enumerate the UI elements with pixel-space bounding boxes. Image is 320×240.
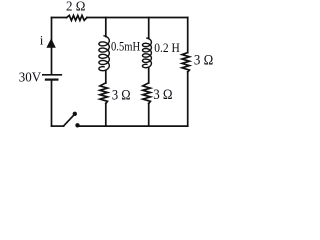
wire left upper (source top lead) xyxy=(51,18,53,75)
wire left lower (source bottom lead) xyxy=(51,81,53,126)
resistor 3Ω branch1 xyxy=(100,83,108,104)
wire right lower xyxy=(187,72,189,126)
switch contact dot xyxy=(75,123,79,127)
svg-text:2 Ω: 2 Ω xyxy=(66,0,85,14)
svg-text:30V: 30V xyxy=(19,69,42,85)
wire bottom-right segment xyxy=(79,125,188,127)
wire branch1 top lead xyxy=(105,18,107,37)
resistor 3Ω right xyxy=(182,53,189,72)
battery 30V top plate xyxy=(43,74,62,76)
switch pole dot xyxy=(73,112,77,116)
svg-text:0.5mH: 0.5mH xyxy=(111,41,140,54)
svg-text:3 Ω: 3 Ω xyxy=(153,86,172,103)
wire branch2 middle lead xyxy=(148,68,150,83)
wire branch2 top lead xyxy=(148,18,150,39)
resistor 2Ω top xyxy=(67,15,87,20)
wire top-right segment xyxy=(87,17,188,19)
svg-text:0.2 H: 0.2 H xyxy=(154,41,180,56)
wire top-left segment xyxy=(52,17,67,19)
inductor L1 0.5mH coil xyxy=(99,36,109,71)
wire bottom-left segment xyxy=(52,125,64,127)
wire branch2 bottom lead xyxy=(148,104,150,127)
switch blade xyxy=(64,115,75,126)
resistor 3Ω branch2 xyxy=(143,83,151,104)
wire right upper xyxy=(187,18,189,53)
wire branch1 middle lead xyxy=(105,71,107,83)
wire branch1 bottom lead xyxy=(105,104,107,127)
inductor L2 0.2H coil xyxy=(143,38,152,68)
svg-text:3 Ω: 3 Ω xyxy=(112,86,131,102)
svg-text:i: i xyxy=(40,32,44,47)
svg-text:3 Ω: 3 Ω xyxy=(194,53,213,69)
battery 30V bottom plate xyxy=(46,78,58,80)
current arrow i xyxy=(46,38,55,48)
